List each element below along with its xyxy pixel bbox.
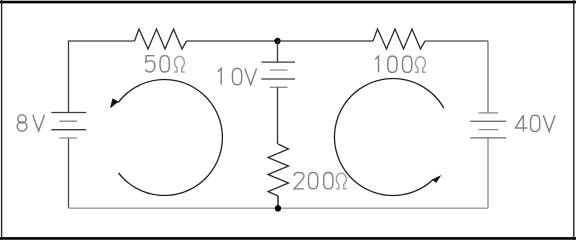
wire node A down to 10V battery top terminal (277, 41, 279, 62)
wire from 8V positive terminal up and right to 50 ohm resistor (69, 41, 135, 113)
wire 200 ohm down to node B (277, 196, 279, 208)
label 50 ohm (146, 56, 185, 72)
battery V2 10V (261, 62, 295, 87)
node B junction dot (275, 205, 281, 211)
resistor 100 ohm (373, 29, 425, 49)
label 200 ohm (294, 173, 347, 189)
wire 50 ohm to node A (187, 40, 278, 42)
mesh current arrow loop 1 (counterclockwise, left mesh) (110, 80, 222, 196)
label 40V (515, 115, 555, 131)
bottom wire from node B to bottom-left corner (69, 207, 279, 209)
wire 10V bottom terminal down to 200 ohm resistor (277, 87, 279, 144)
resistor 200 ohm (268, 144, 289, 196)
mesh current arrow loop 2 (counterclockwise, right mesh) (334, 79, 443, 196)
label 10V (218, 68, 257, 84)
battery V3 40V (470, 113, 506, 138)
label 100 ohm (375, 56, 426, 72)
wire 40V bottom terminal down to bottom-right corner (487, 138, 489, 208)
resistor 50 ohm (135, 29, 187, 49)
wire 100 ohm right and down to 40V battery top terminal (425, 40, 488, 42)
node A junction dot (274, 38, 280, 44)
wire 8V negative terminal down to bottom-left corner (68, 138, 70, 208)
label 8V (17, 115, 44, 131)
battery V1 8V (51, 113, 86, 139)
bottom wire from bottom-right corner to node B (278, 207, 488, 209)
wire node A to 100 ohm resistor (278, 40, 374, 42)
